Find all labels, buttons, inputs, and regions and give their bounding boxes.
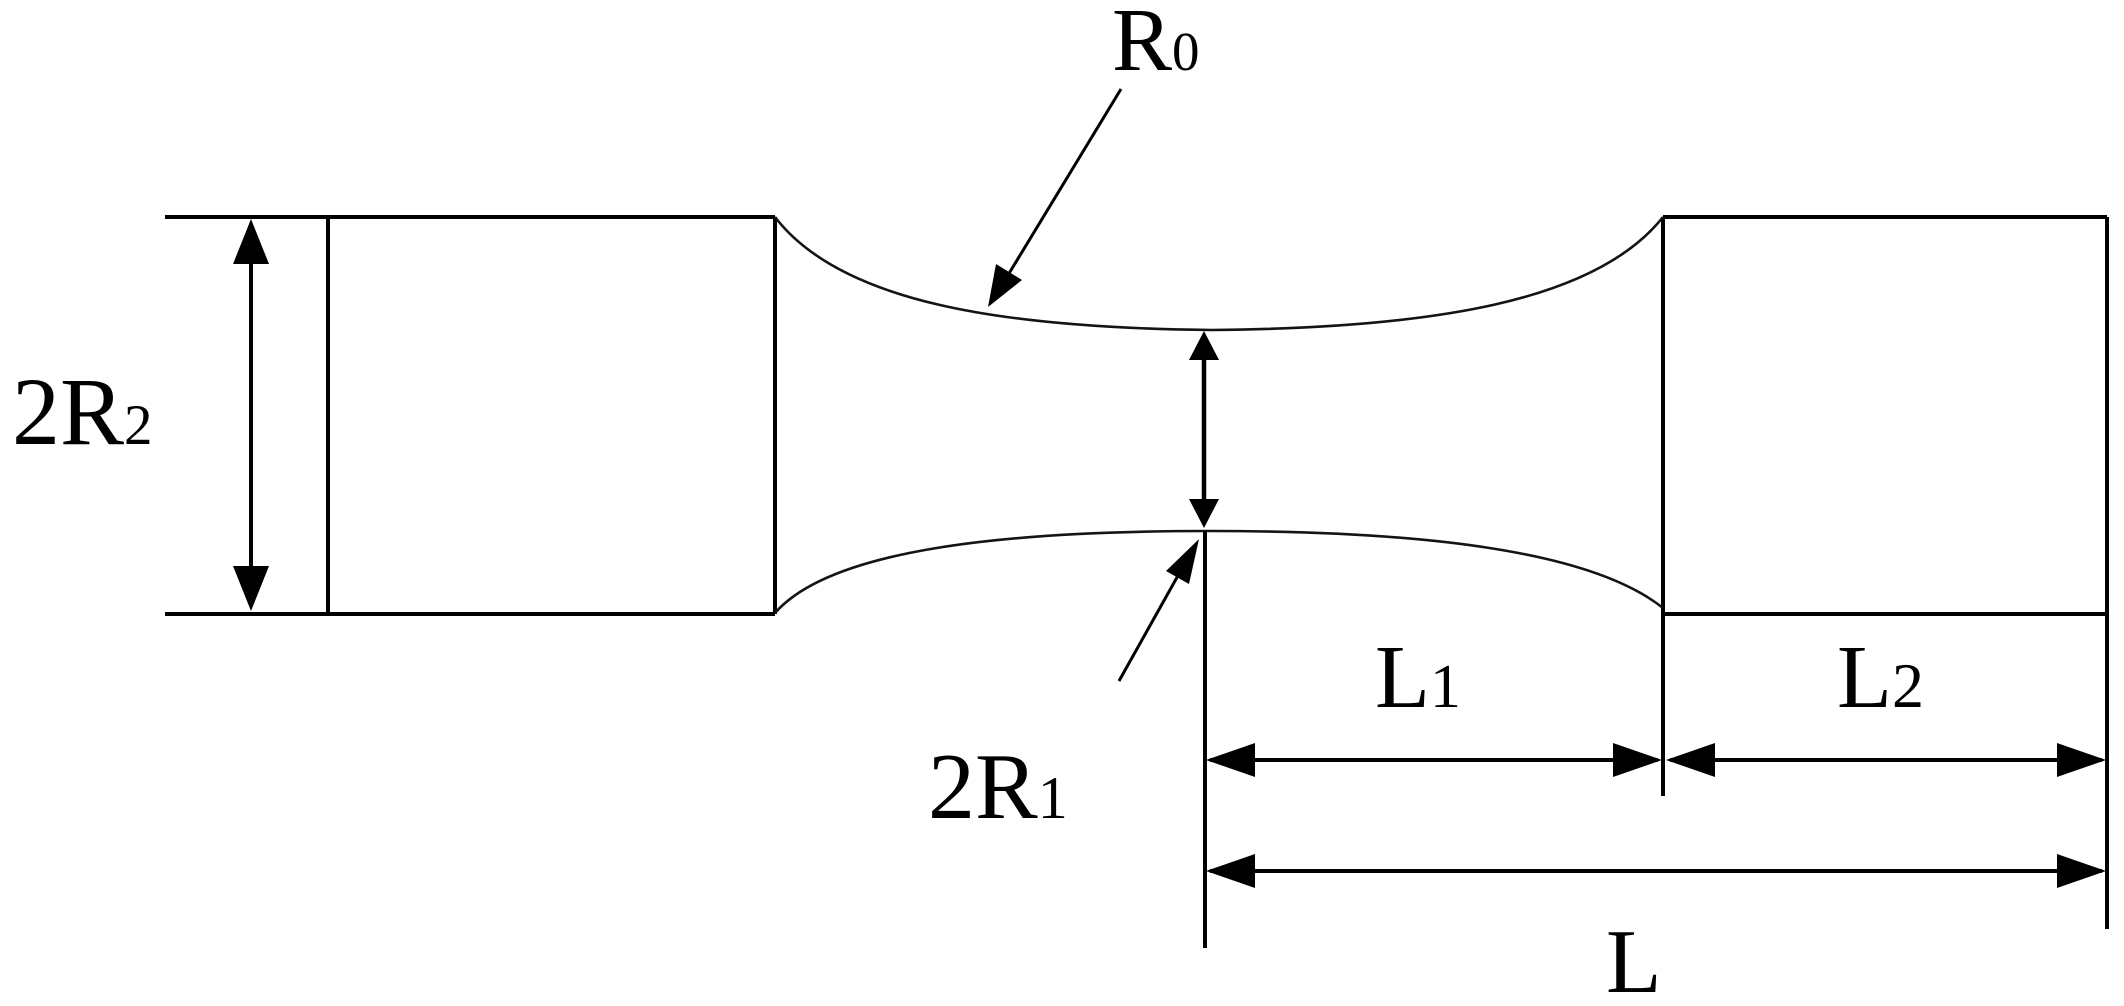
svg-text:2R1: 2R1 (928, 735, 1068, 839)
svg-text:2R2: 2R2 (12, 358, 153, 465)
svg-text:L1: L1 (1375, 628, 1461, 727)
svg-text:L: L (1606, 911, 1662, 1006)
svg-text:R0: R0 (1112, 0, 1200, 90)
svg-text:L2: L2 (1837, 628, 1924, 727)
